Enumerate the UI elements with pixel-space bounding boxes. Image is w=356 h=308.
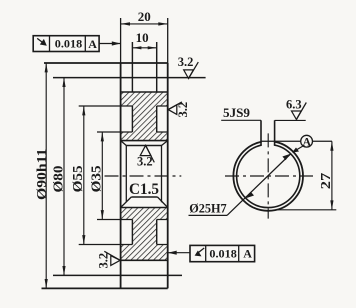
hatch band below bore full width xyxy=(121,208,168,220)
leader from top frame to left face ext line xyxy=(99,41,121,45)
5JS9 dimension lines xyxy=(221,105,306,120)
diameter dimension Ø55 xyxy=(71,106,86,245)
extension line 20-dim right xyxy=(167,18,169,63)
chamfer circle Ø28 xyxy=(233,141,303,211)
recess bottom edges (Ø35 level) with left extension xyxy=(97,131,168,133)
roughness 3.2 on groove bottom (top right) xyxy=(178,55,199,79)
part bottom edge Ø90 with left extension xyxy=(42,287,168,289)
svg-text:0.018: 0.018 xyxy=(209,247,236,261)
bore top line Ø25 xyxy=(126,145,161,147)
hatch bottom boundary line xyxy=(121,259,168,261)
keyway side left xyxy=(260,120,262,145)
hatch web column lower xyxy=(132,220,156,245)
svg-text:Ø55: Ø55 xyxy=(71,165,86,192)
groove wall right xyxy=(156,42,158,92)
roughness 3.2 inside bore xyxy=(137,145,154,168)
tolerance frame top (runout 0.018 A) xyxy=(33,36,99,52)
centerline vertical right view xyxy=(267,133,269,218)
recess inner walls lower xyxy=(132,220,156,245)
centerline horizontal right view xyxy=(225,175,313,177)
keyway bottom line in bore xyxy=(121,140,168,142)
hub bottom line of bore region xyxy=(121,207,168,209)
bore chamfer vertical right xyxy=(161,146,163,203)
svg-text:A: A xyxy=(303,137,312,149)
svg-text:3.2: 3.2 xyxy=(178,55,194,69)
roughness 6.3 on keyway xyxy=(286,98,306,120)
svg-text:5JS9: 5JS9 xyxy=(223,105,251,120)
svg-text:Ø25H7: Ø25H7 xyxy=(189,202,227,216)
hatch band rim-top full width xyxy=(121,92,168,106)
keyway top line / datum extension line xyxy=(261,140,332,142)
datum A circle xyxy=(292,135,313,152)
Ø80 top line with extensions xyxy=(53,77,206,79)
bore chamfer diagonal bottom-left xyxy=(121,197,132,208)
svg-text:Ø90h11: Ø90h11 xyxy=(34,148,49,200)
svg-text:Ø35: Ø35 xyxy=(90,165,105,192)
roughness 3.2 on right face (rotated) xyxy=(168,102,190,118)
C1.5 chamfer label xyxy=(129,181,159,198)
dimension 20 xyxy=(121,9,168,25)
keyway side right xyxy=(274,120,276,145)
bore circle Ø25H7 xyxy=(237,144,300,207)
part top edge Ø90 with left extension xyxy=(44,62,168,64)
bore chamfer vertical left xyxy=(125,146,127,203)
svg-text:6.3: 6.3 xyxy=(286,98,302,112)
dimension 27 xyxy=(277,141,336,210)
bore bottom short line xyxy=(131,196,157,198)
bore chamfer diagonal top-right xyxy=(162,141,168,146)
hatch band rim-bottom full width xyxy=(121,245,168,261)
part outline left edge xyxy=(120,63,122,288)
svg-text:3.2: 3.2 xyxy=(176,102,190,118)
groove bottom line / hatch top boundary xyxy=(121,91,168,93)
hatch web column upper xyxy=(132,106,156,132)
svg-text:3.2: 3.2 xyxy=(96,253,110,269)
dimension 10 xyxy=(132,30,156,49)
svg-text:20: 20 xyxy=(138,9,151,24)
extension line 20-dim left xyxy=(120,18,122,63)
svg-text:3.2: 3.2 xyxy=(137,154,153,168)
svg-text:27: 27 xyxy=(319,173,334,190)
bore chamfer diagonal top-left xyxy=(121,141,127,146)
diameter dimension Ø80 xyxy=(52,78,67,276)
svg-text:A: A xyxy=(88,37,97,51)
Ø25H7 leader/diameter line xyxy=(189,154,291,216)
svg-text:A: A xyxy=(243,247,252,261)
diameter dimension Ø35 xyxy=(90,132,105,220)
part outline right edge xyxy=(167,63,169,288)
tolerance frame bottom (runout 0.018 A) xyxy=(190,245,255,261)
axis centerline left view xyxy=(105,175,182,177)
recess inner walls upper xyxy=(132,106,156,132)
leader from bottom frame to right face xyxy=(168,251,190,255)
svg-text:Ø80: Ø80 xyxy=(52,166,67,193)
svg-text:0.018: 0.018 xyxy=(55,36,82,50)
bore chamfer diagonal bottom-right xyxy=(158,197,168,208)
svg-text:10: 10 xyxy=(136,30,149,45)
Ø80 bottom line with extensions xyxy=(53,274,182,276)
roughness 3.2 on left face (rotated) xyxy=(96,251,120,268)
svg-text:C1.5: C1.5 xyxy=(129,181,159,198)
recess edges lower (Ø35/Ø55 levels) with left extensions xyxy=(79,220,168,245)
keyway slot mask xyxy=(262,137,274,147)
hatch band above bore full width xyxy=(121,132,168,141)
recess top edges (Ø55 level) with left extension xyxy=(79,105,168,107)
groove wall left xyxy=(131,42,133,92)
diameter dimension Ø90h11 xyxy=(34,63,49,288)
